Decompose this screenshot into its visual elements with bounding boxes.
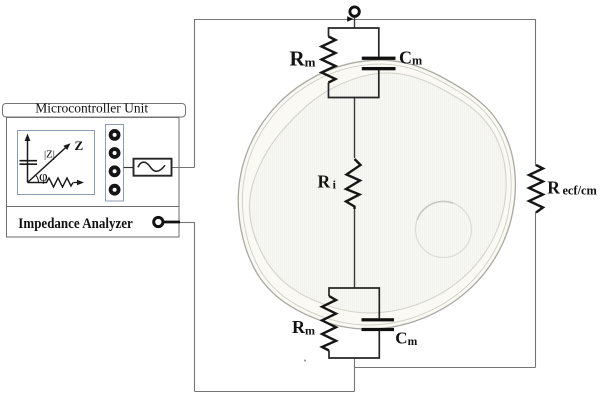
resistor R_m bottom — [322, 296, 336, 351]
phasor plot box — [18, 131, 95, 195]
wire mid-to-bottom branch vertical — [354, 209, 356, 288]
svg-text:Z: Z — [75, 138, 84, 153]
stray dot — [304, 360, 306, 362]
svg-text:|Z|: |Z| — [44, 148, 55, 160]
impedance analyzer terminal — [154, 217, 195, 226]
wire top cell branch vertical — [354, 98, 356, 159]
top RC parallel box frame — [329, 28, 379, 98]
wire left vertical upper — [194, 19, 196, 168]
wire top horizontal — [195, 19, 536, 21]
resistor R_ecf/cm — [529, 165, 543, 213]
current arrow — [347, 16, 353, 21]
connector pin 3 — [109, 165, 121, 177]
capacitor C_m top — [362, 57, 396, 71]
wire connector to source — [124, 167, 134, 169]
wire left vertical lower — [194, 222, 196, 392]
wire right vertical — [535, 19, 537, 368]
resistor R_m top — [322, 37, 336, 83]
phasor angle arc — [36, 175, 39, 182]
wire bottom right horizontal — [355, 367, 536, 369]
wire source to left wire — [172, 167, 195, 169]
connector pin 4 — [109, 184, 121, 196]
resistor R_i — [346, 159, 361, 209]
phasor capacitor symbol — [20, 161, 38, 165]
wire bottom center vertical — [354, 358, 356, 392]
phasor horizontal axis with resistor symbol — [28, 178, 85, 187]
node terminal top — [350, 7, 359, 29]
svg-text:Impedance Analyzer: Impedance Analyzer — [18, 216, 133, 232]
impedance analyzer divider — [7, 206, 180, 208]
svg-text:φ: φ — [39, 169, 48, 185]
wire bottom horizontal — [195, 391, 355, 393]
capacitor C_m bottom — [362, 318, 395, 331]
connector strip — [106, 125, 124, 202]
phasor vertical axis — [25, 134, 31, 183]
svg-text:Microcontroller Unit: Microcontroller Unit — [35, 101, 148, 116]
connector pin 2 — [109, 147, 121, 159]
AC source box — [134, 159, 172, 176]
vesicle circle — [416, 202, 472, 258]
connector pin 1 — [109, 129, 121, 141]
bottom RC parallel box frame — [329, 288, 379, 358]
phasor Z vector arrow — [28, 143, 71, 182]
microcontroller unit body box — [7, 118, 180, 238]
microcontroller header box — [3, 101, 186, 117]
cell body outer membrane — [238, 60, 515, 329]
cell cytoplasm — [249, 73, 506, 313]
